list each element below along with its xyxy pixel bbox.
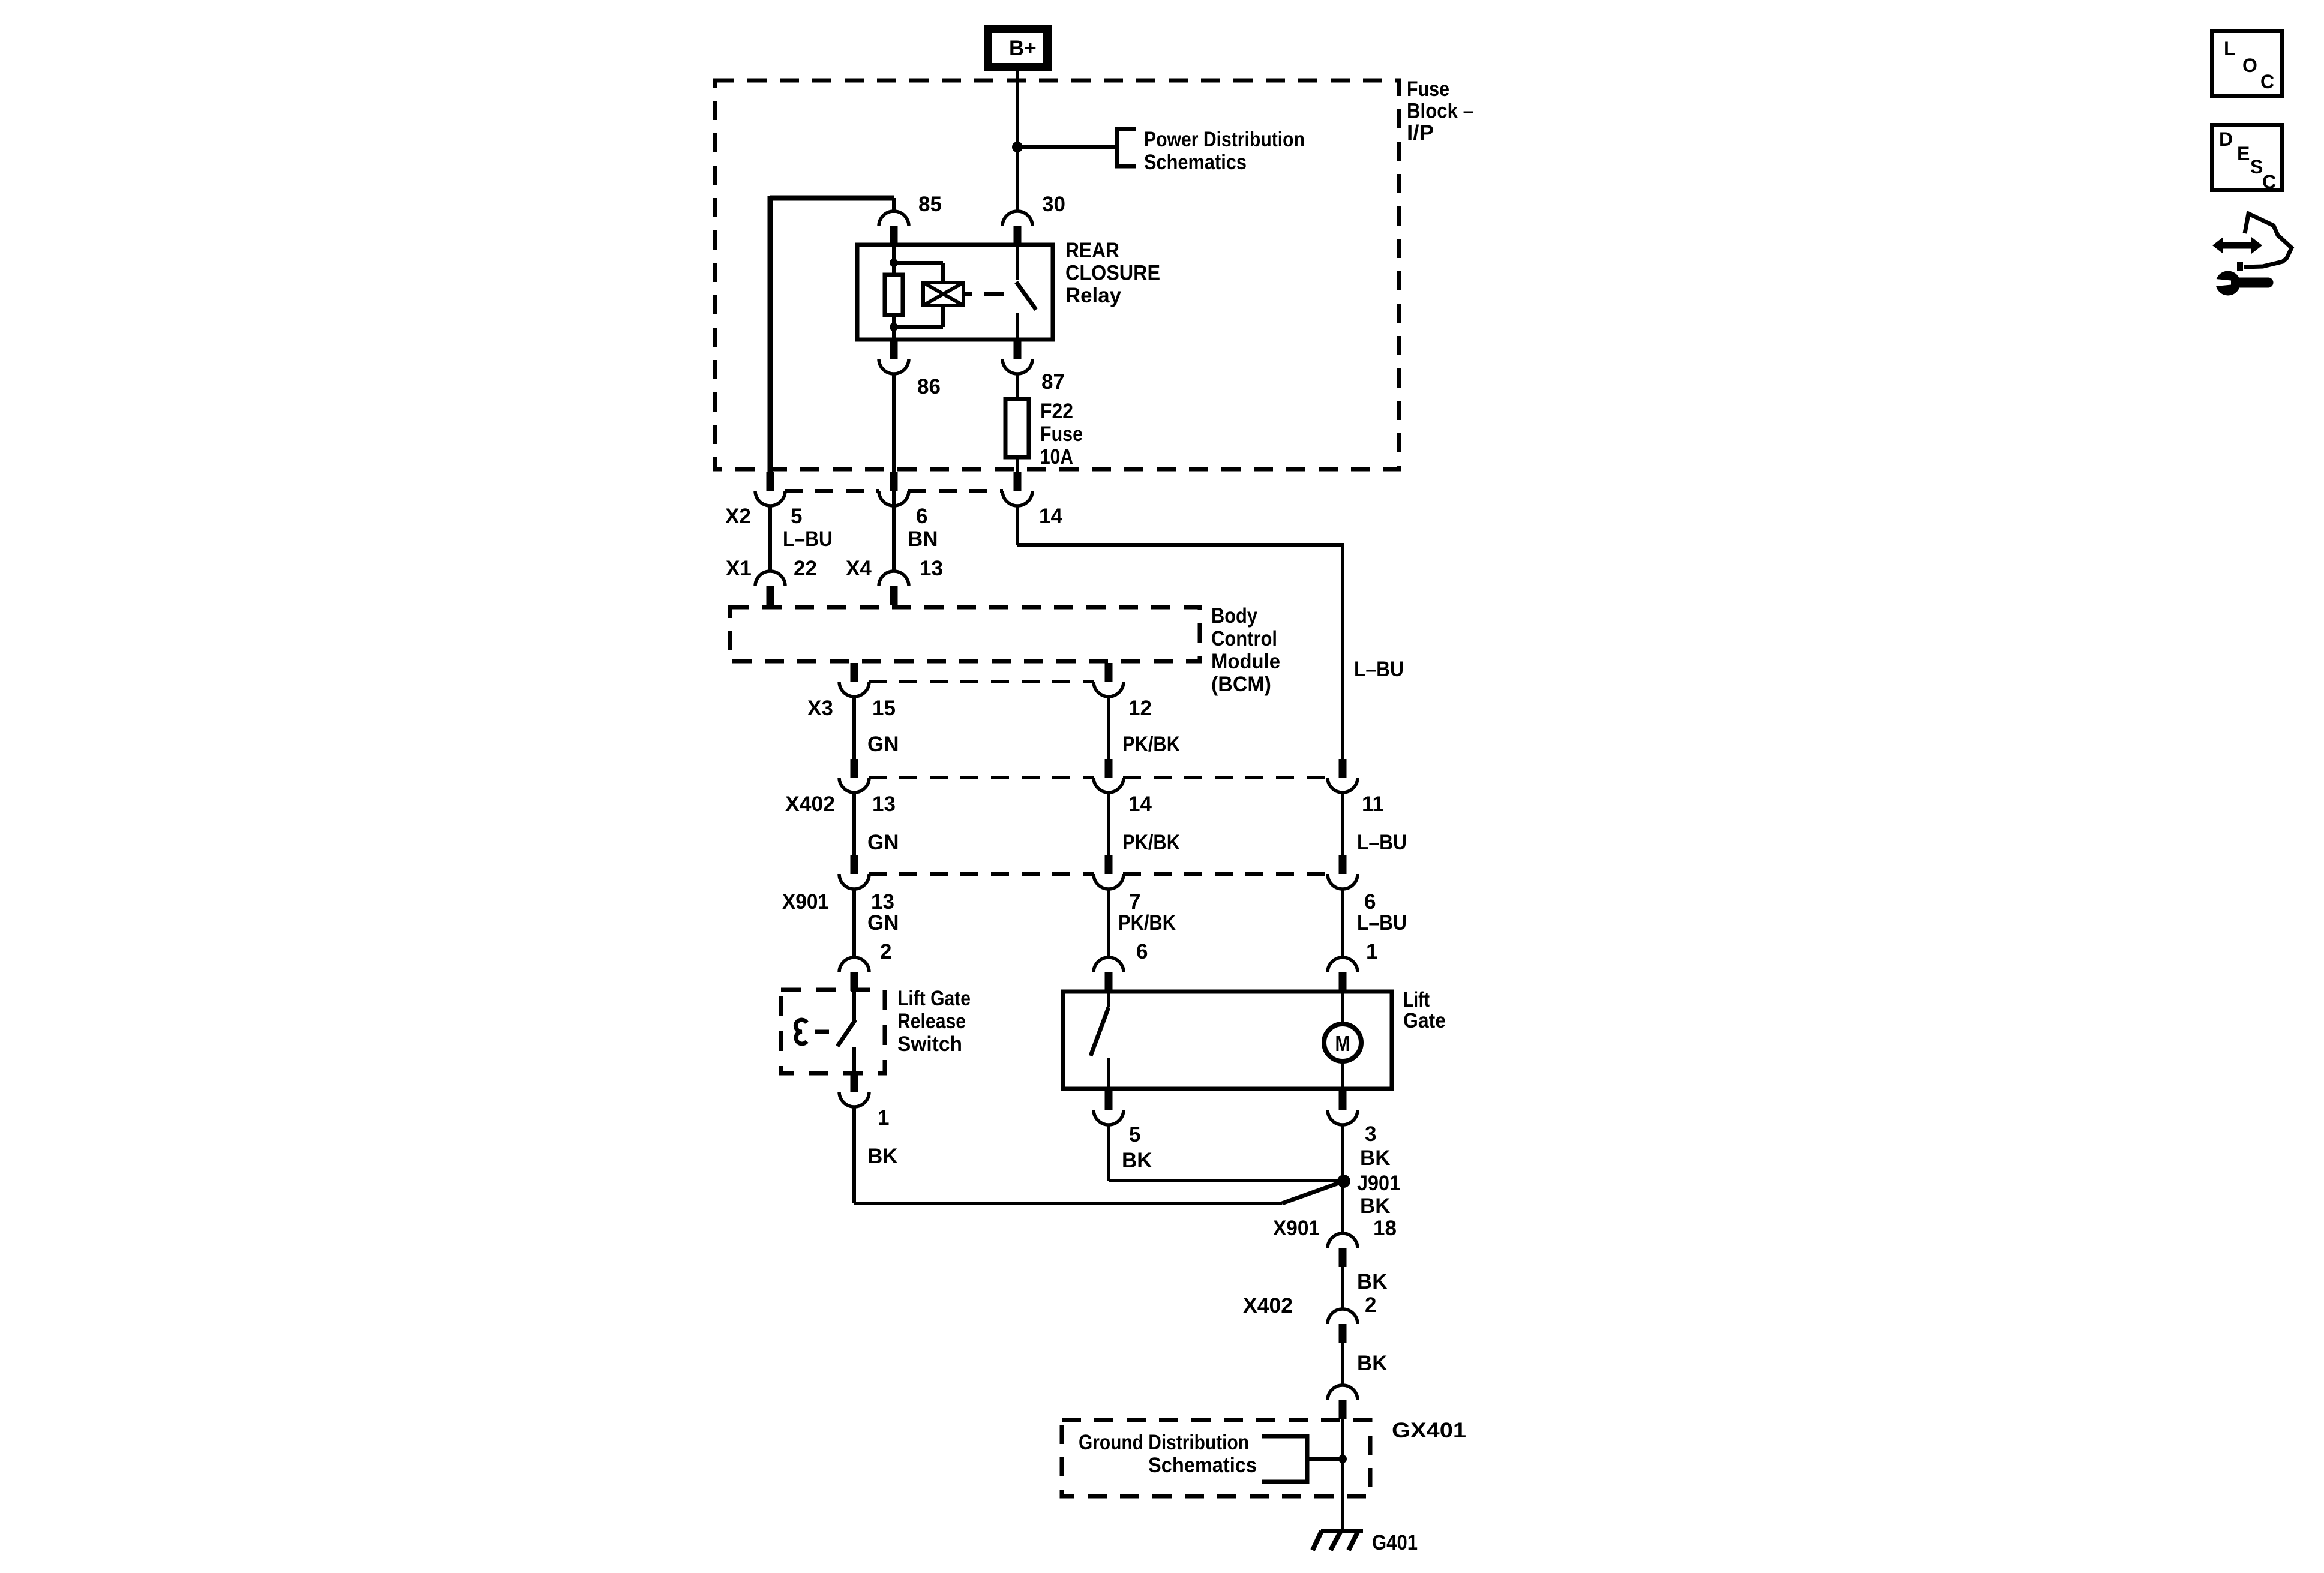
release switch manual actuator [795,1020,807,1044]
wire B+ to relay terminal 30 [1016,71,1019,212]
relay coil wire upper [892,245,896,275]
svg-text:6: 6 [1136,940,1148,963]
release switch blade [837,1020,855,1046]
svg-text:REAR: REAR [1065,239,1119,262]
wire 14 to Lift Gate branch (down, right, down) [1016,505,1019,545]
lift gate motor M [1324,1024,1361,1061]
svg-text:BK: BK [1122,1149,1152,1172]
connector lift gate pin 5 [1105,1091,1113,1110]
connector into GX401 [1339,1400,1347,1419]
svg-text:3: 3 [1365,1122,1376,1146]
svg-text:5: 5 [1129,1123,1140,1146]
connector X2 pin 6 [890,472,898,491]
wire relay 85 loop (horizontal + left drop) [770,196,894,201]
svg-text:(BCM): (BCM) [1211,673,1271,696]
svg-text:L–BU: L–BU [1357,831,1407,854]
wire X402-11 to X901-6 (L-BU) [1341,792,1344,856]
svg-text:2: 2 [880,940,891,963]
svg-text:13: 13 [920,557,943,580]
svg-text:BK: BK [1357,1270,1388,1293]
wire X901-7 to lift gate pin 6 (PK/BK) [1107,888,1110,958]
node junction on B+ wire [1012,142,1023,152]
relay coil resistor [885,275,903,315]
svg-text:Schematics: Schematics [1144,151,1247,174]
battery feed B+ symbol [988,29,1047,67]
svg-text:1: 1 [1366,940,1377,963]
svg-text:87: 87 [1041,370,1065,394]
Lift Gate box [1063,992,1392,1089]
wire X3-12 to X402-14 (PK/BK) [1107,696,1110,760]
wire X402-14 to X901-7 (PK/BK) [1107,792,1110,856]
ground symbol G401 [1321,1529,1363,1533]
svg-text:Fuse: Fuse [1040,422,1083,446]
relay solenoid branch wires [894,261,943,265]
connector lift gate release switch pin 2 [851,972,858,991]
svg-text:Ground Distribution: Ground Distribution [1079,1431,1249,1454]
svg-text:Switch: Switch [897,1032,962,1056]
svg-text:C: C [2262,171,2276,193]
svg-text:O: O [2242,55,2257,76]
svg-text:30: 30 [1042,193,1065,216]
connector lift gate pin 3 [1339,1091,1347,1110]
connector X1 pin 22 [767,586,774,605]
relay actuator dashed link [984,292,1004,296]
connector X3 pin 15 [851,663,858,682]
svg-text:22: 22 [794,557,817,580]
Fuse Block - I/P dashed box [715,80,1399,469]
relay terminal 86 connector [890,340,898,359]
svg-text:BN: BN [908,527,938,551]
Lift Gate Release Switch dashed box [781,990,885,1073]
connector X901 pin 6 [1339,855,1347,874]
wire through GX401 to ground [1341,1419,1344,1531]
wire motor to pin 3 [1341,1061,1344,1089]
connector X402 pin 2 [1339,1324,1347,1343]
svg-text:GN: GN [867,733,899,756]
connector X4 pin 13 [890,586,898,605]
connector row X3 dashed line [869,680,1094,683]
wire 87 to fuse F22 [1016,373,1019,399]
node relay coil top junction [890,259,898,267]
svg-text:BK: BK [1360,1146,1391,1170]
release switch actuator dashed link [815,1030,829,1034]
svg-text:86: 86 [917,375,941,398]
svg-text:C: C [2260,71,2274,92]
connector row X2 dashed line [785,489,879,493]
svg-text:85: 85 [918,193,942,216]
GX401 dashed box [1062,1420,1370,1496]
svg-text:18: 18 [1373,1217,1397,1240]
relay switch blade [1016,282,1036,310]
svg-text:GX401: GX401 [1392,1419,1466,1442]
LOC icon box [2212,31,2283,96]
Body Control Module dashed box [730,607,1200,661]
DESC icon box [2212,125,2283,190]
connector X3 pin 12 [1105,663,1113,682]
svg-text:5: 5 [791,505,802,528]
svg-text:G401: G401 [1372,1531,1418,1554]
svg-text:12: 12 [1128,697,1152,720]
svg-text:Module: Module [1211,650,1280,673]
svg-text:14: 14 [1039,505,1062,528]
svg-text:E: E [2237,143,2250,164]
svg-text:B+: B+ [1009,37,1037,60]
wire pin 5 to J901 (BK) [1107,1124,1110,1181]
Ground Distribution reference bracket [1262,1436,1307,1482]
svg-text:BK: BK [1360,1194,1391,1218]
node splice J901 [1337,1175,1350,1188]
fuse F22 symbol [1005,399,1029,457]
svg-text:Lift: Lift [1403,988,1430,1011]
svg-text:14: 14 [1128,792,1152,816]
svg-text:PK/BK: PK/BK [1118,911,1176,935]
svg-text:6: 6 [916,505,927,528]
wire X2-5 to X1-22 (L-BU) [768,505,772,572]
svg-text:J901: J901 [1357,1172,1400,1195]
svg-text:GN: GN [867,831,899,854]
svg-text:10A: 10A [1040,445,1073,469]
wire fuse to X2 pin 14 [1016,457,1019,473]
svg-text:L: L [2224,38,2236,59]
svg-text:X3: X3 [807,697,833,720]
Power Distribution reference bracket [1118,129,1136,166]
relay actuator tick [963,292,972,296]
lift gate switch blade [1091,1007,1109,1056]
connector release switch pin 1 [851,1073,858,1092]
connector X901 pin 13 [851,855,858,874]
relay switch upper contact [1016,245,1019,280]
wire 86 to X4 pin 13 [892,373,896,572]
relay solenoid coil symbol (box with X) [923,283,963,305]
wire tap to Power Distribution bracket [1017,145,1117,149]
svg-text:Control: Control [1211,627,1277,650]
connector X402 pin 11 [1339,759,1347,778]
svg-text:L–BU: L–BU [783,527,833,551]
relay coil wire lower [892,315,896,340]
connector X2 pin 14 [1014,472,1022,491]
svg-text:Block –: Block – [1407,100,1473,123]
relay terminal 87 connector [1014,340,1022,359]
svg-text:15: 15 [872,697,896,720]
schematic usage icon (car outline, double arrow, wrench) [2212,214,2292,296]
svg-text:X901: X901 [782,890,829,914]
svg-text:Fuse: Fuse [1407,77,1449,101]
svg-text:2: 2 [1365,1293,1376,1317]
wire X901-6 to lift gate pin 1 (L-BU) [1341,888,1344,958]
svg-text:13: 13 [872,792,896,816]
svg-text:D: D [2219,128,2233,150]
svg-text:X1: X1 [726,557,752,580]
svg-text:1: 1 [878,1106,889,1130]
connector X402 pin 14 [1105,759,1113,778]
svg-text:7: 7 [1129,890,1140,914]
svg-text:L–BU: L–BU [1354,658,1404,681]
release switch lower contact [852,1047,856,1073]
connector X402 pin 13 [851,759,858,778]
svg-text:BK: BK [1357,1352,1388,1375]
svg-text:Release: Release [897,1010,966,1033]
node junction in GX401 [1338,1455,1347,1463]
svg-text:BK: BK [867,1145,898,1168]
svg-text:S: S [2250,156,2263,178]
svg-text:PK/BK: PK/BK [1122,733,1180,756]
svg-text:X2: X2 [725,505,751,528]
connector row X402 dashed line [869,776,1094,779]
wire X402-13 to X901-13 (GN) [852,792,856,856]
connector X901 pin 18 [1339,1248,1347,1267]
wire switch pin1 to J901 (BK) [852,1106,856,1203]
svg-text:13: 13 [871,890,894,914]
svg-text:I/P: I/P [1407,121,1434,145]
svg-text:CLOSURE: CLOSURE [1065,262,1160,285]
relay terminal 85 connector [890,226,898,245]
lift gate switch lower contact [1107,1058,1110,1089]
wire X3-15 to X402-13 (GN) [852,696,856,760]
connector lift gate pin 1 [1339,972,1347,991]
svg-text:F22: F22 [1040,400,1073,423]
svg-text:Power Distribution: Power Distribution [1144,128,1305,151]
connector X901 pin 7 [1105,855,1113,874]
svg-text:6: 6 [1364,890,1376,914]
svg-text:Schematics: Schematics [1148,1454,1257,1477]
svg-text:Body: Body [1211,604,1257,628]
svg-text:Relay: Relay [1065,284,1122,307]
REAR CLOSURE Relay box [857,245,1053,340]
svg-text:X4: X4 [846,557,872,580]
svg-text:11: 11 [1362,792,1384,816]
lift gate switch upper contact [1107,992,1110,1007]
svg-text:PK/BK: PK/BK [1122,831,1180,854]
svg-text:X901: X901 [1273,1217,1320,1240]
svg-text:X402: X402 [1243,1294,1293,1317]
wire J901 down (BK) [1341,1124,1344,1234]
wire bracket to ground wire [1307,1457,1343,1461]
svg-text:Lift Gate: Lift Gate [897,987,971,1010]
connector row X901 dashed line [869,872,1094,876]
relay switch lower contact [1016,313,1019,340]
wire X2-6 to X4-13 (BN) [892,505,896,572]
wire X901-18 to X402-2 (BK) [1341,1267,1344,1310]
connector X2 pin 5 [767,472,774,491]
wire X901-13 to switch pin 2 (GN) [852,888,856,958]
svg-text:GN: GN [867,911,899,935]
release switch upper contact [852,990,856,1020]
relay terminal 30 connector [1014,226,1022,245]
svg-text:L–BU: L–BU [1357,911,1407,935]
svg-text:Gate: Gate [1403,1009,1446,1032]
node relay coil bottom junction [890,323,898,331]
svg-text:M: M [1335,1031,1350,1056]
wire X402-2 to GX401 (BK) [1341,1343,1344,1386]
wire motor feed upper [1341,992,1344,1022]
svg-text:X402: X402 [785,792,835,816]
connector lift gate pin 6 [1105,972,1113,991]
wire stub above terminal 85 [892,198,896,213]
